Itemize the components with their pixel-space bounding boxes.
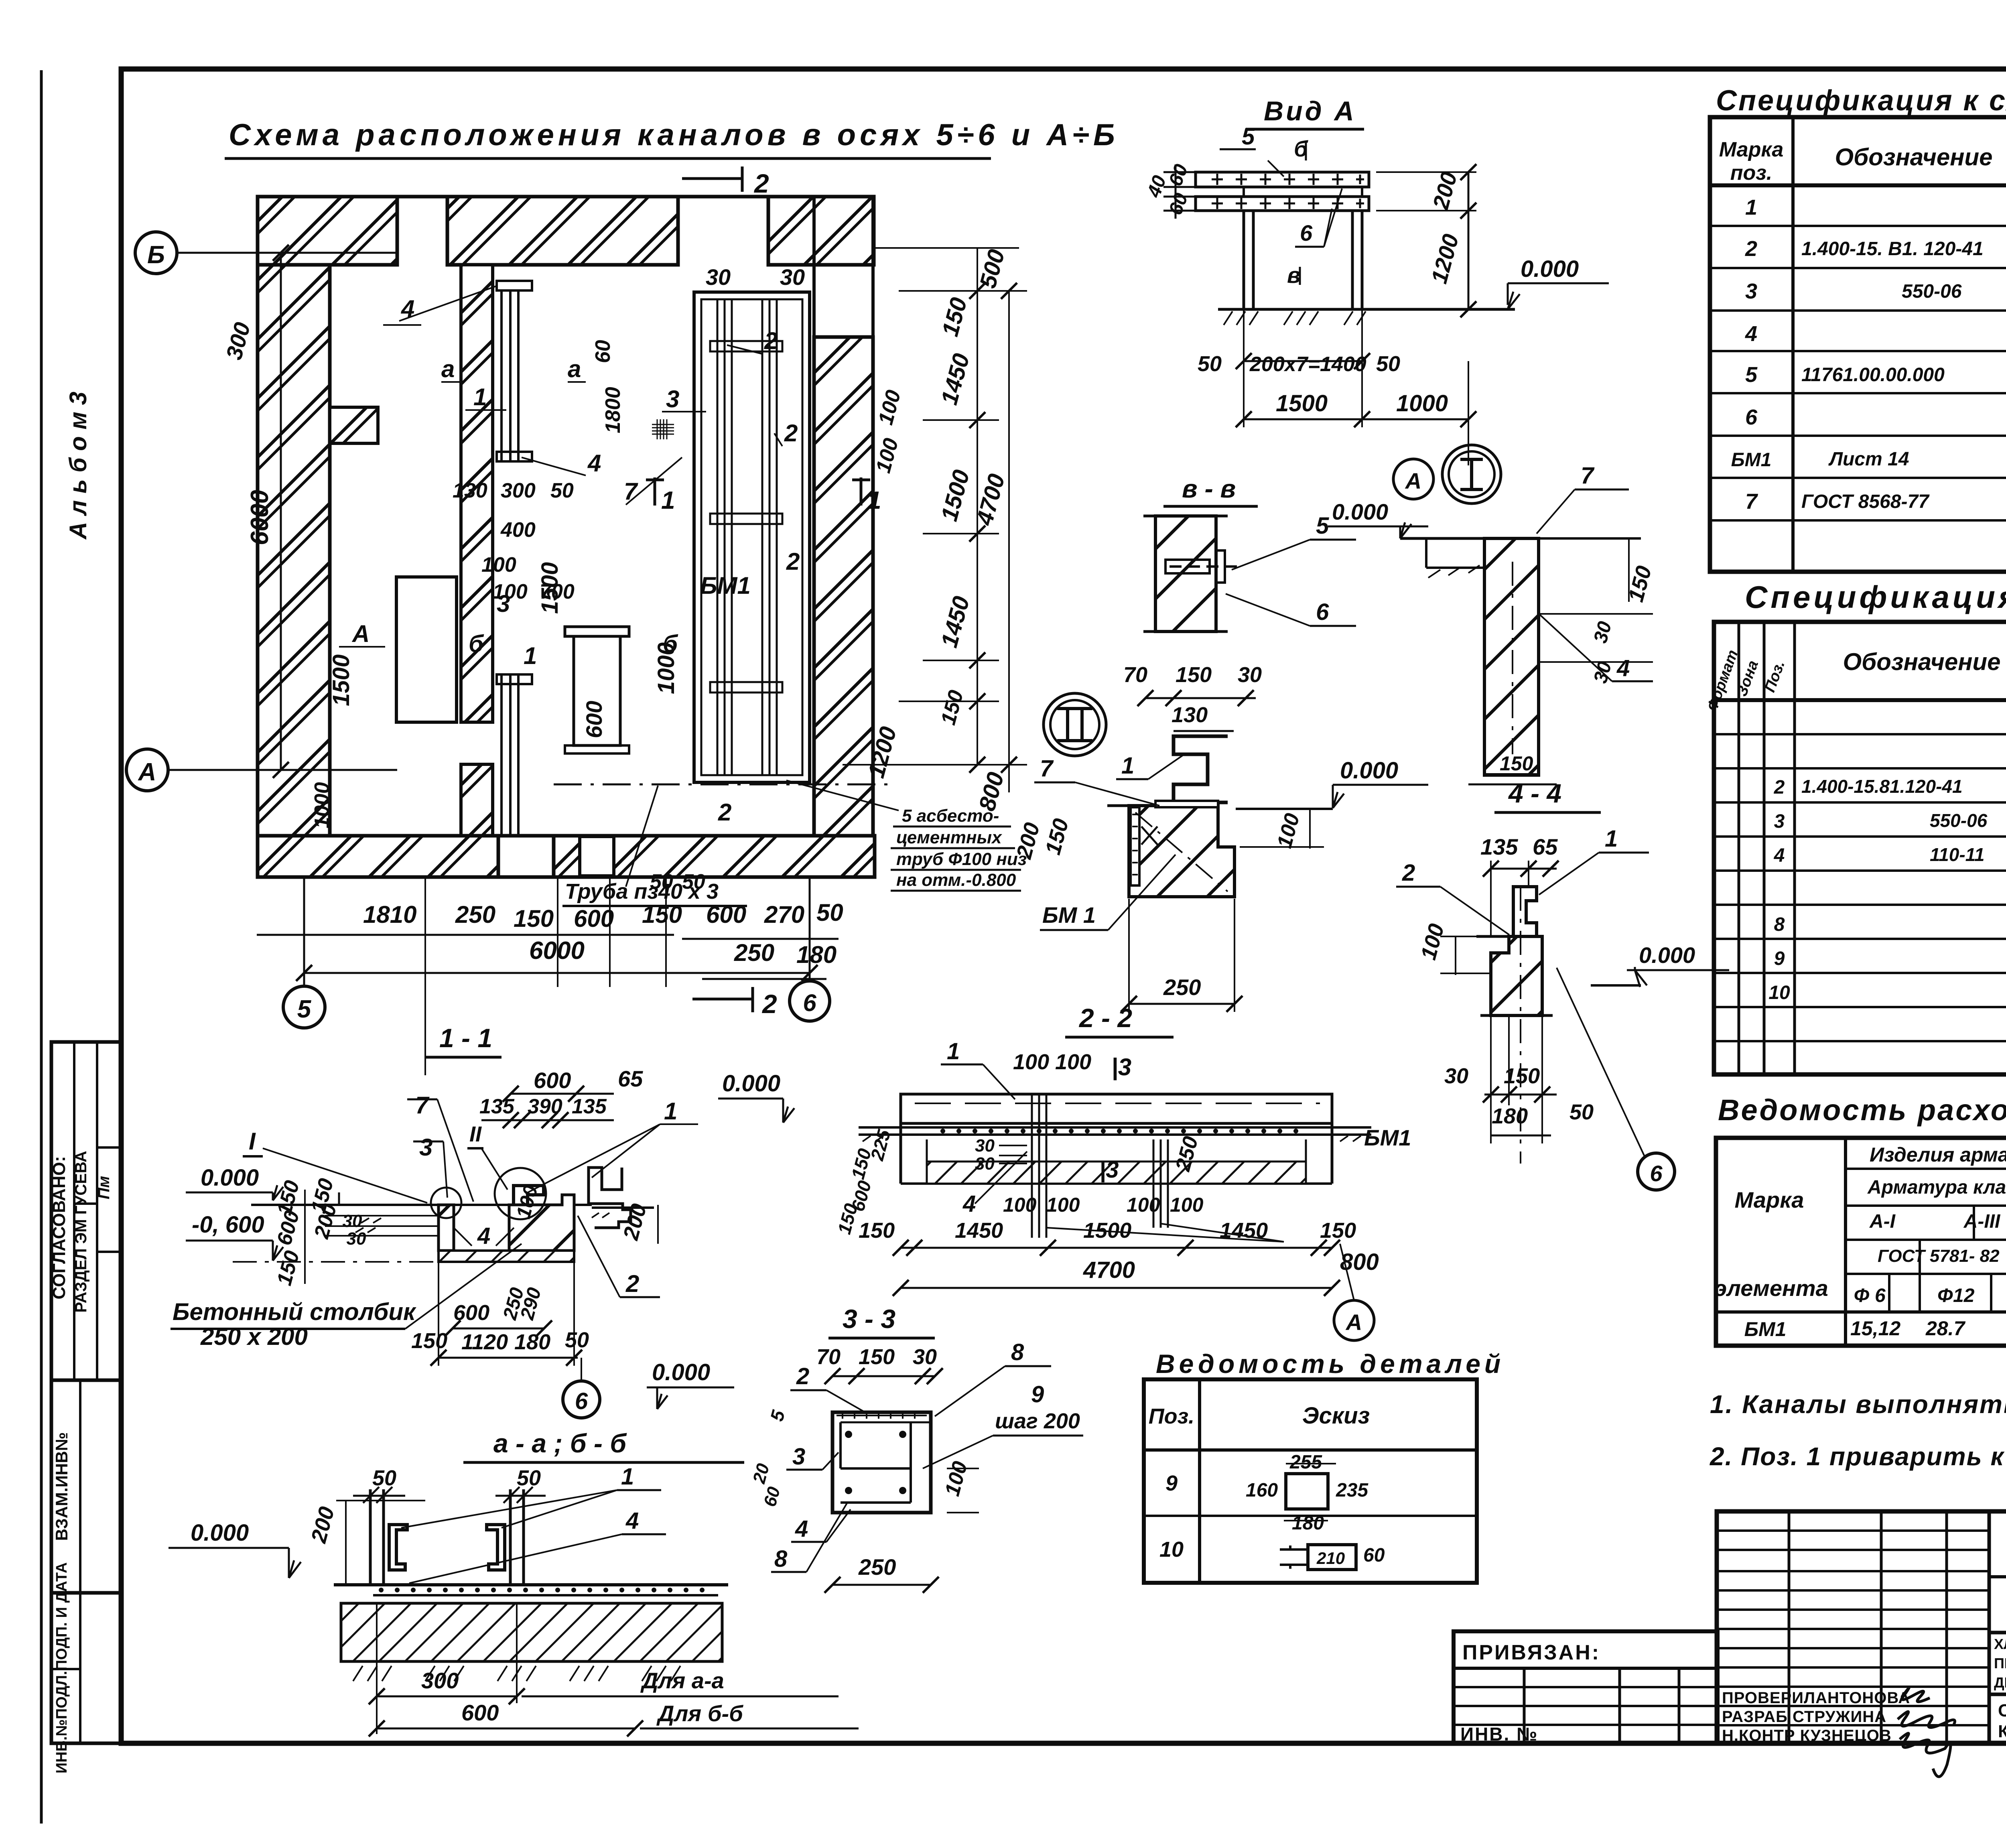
svg-text:110-11: 110-11 <box>1930 844 1984 865</box>
table 1 header texts <box>1719 136 2006 185</box>
4-4 axis 6 circle <box>1638 1153 1675 1190</box>
svg-text:ХЛОРАТОРНАЯ ДЛЯ ОБЕЗЗАРАЖИВАНИ: ХЛОРАТОРНАЯ ДЛЯ ОБЕЗЗАРАЖИВАНИЯ <box>1994 1636 2006 1652</box>
svg-text:8: 8 <box>1011 1339 1024 1365</box>
1-1 detail circles <box>431 1188 461 1218</box>
1-1 trench left pier <box>439 1205 454 1251</box>
svg-text:Н.КОНТР КУЗНЕЦОВ: Н.КОНТР КУЗНЕЦОВ <box>1722 1727 1892 1744</box>
svg-text:Ведомость расхода стали на эл: Ведомость расхода стали на элемент, кг <box>1718 1093 2006 1127</box>
svg-text:30: 30 <box>347 1229 366 1249</box>
small channel item 1 lower left <box>554 627 895 784</box>
svg-text:2: 2 <box>761 989 777 1019</box>
2-2 dim row 1 <box>901 1247 1332 1249</box>
svg-text:180: 180 <box>1292 1513 1324 1534</box>
1-1 left dims <box>272 1176 366 1288</box>
а-а left C-channel <box>389 1525 407 1570</box>
svg-text:3 - 3: 3 - 3 <box>843 1304 895 1334</box>
svg-text:4: 4 <box>795 1516 808 1542</box>
3-3 section body <box>832 1412 931 1513</box>
svg-text:250: 250 <box>1163 975 1201 1000</box>
axis 5 line and circle <box>303 879 305 986</box>
svg-text:8: 8 <box>774 1546 788 1572</box>
svg-text:235: 235 <box>1336 1480 1368 1501</box>
svg-text:6: 6 <box>1316 599 1329 625</box>
stamp box 1 СОГЛАСОВАНО <box>51 1042 121 1380</box>
table 2 спецификация балки <box>1714 622 2006 1074</box>
svg-text:150: 150 <box>1176 663 1212 687</box>
svg-text:3: 3 <box>792 1444 805 1470</box>
2-2 post clusters <box>1032 1094 1168 1238</box>
svg-text:100: 100 <box>1127 1194 1160 1216</box>
stamp box 3 ИНВ ПОДЛ <box>51 1593 121 1743</box>
svg-text:А: А <box>1405 468 1421 493</box>
svg-text:Спецификация к схеме расположе: Спецификация к схеме расположения канало… <box>1716 85 2006 117</box>
plan walls: right wall <box>814 337 873 837</box>
svg-text:поз.: поз. <box>1730 161 1773 185</box>
sheet outer left edge line <box>40 70 43 1824</box>
svg-text:4 - 4: 4 - 4 <box>1508 778 1561 808</box>
svg-text:7: 7 <box>1745 489 1758 514</box>
svg-text:600: 600 <box>574 905 614 932</box>
svg-text:10: 10 <box>1768 982 1790 1003</box>
svg-text:150: 150 <box>859 1218 895 1243</box>
svg-text:3: 3 <box>419 1134 432 1161</box>
svg-text:-0, 600: -0, 600 <box>192 1212 264 1238</box>
svg-text:1000: 1000 <box>311 782 334 829</box>
vertical dim 6000 left <box>280 253 282 770</box>
svg-text:2: 2 <box>796 1363 809 1389</box>
double circle I <box>1442 445 1501 504</box>
svg-text:6: 6 <box>1650 1161 1663 1186</box>
svg-text:4: 4 <box>1745 322 1757 346</box>
svg-text:1450: 1450 <box>1220 1218 1268 1243</box>
svg-text:600: 600 <box>534 1068 571 1093</box>
svg-text:БМ1: БМ1 <box>1364 1125 1411 1150</box>
svg-text:100: 100 <box>1046 1194 1080 1216</box>
svg-text:1: 1 <box>867 487 881 514</box>
svg-text:|3: |3 <box>1111 1054 1131 1080</box>
svg-text:50: 50 <box>1198 352 1222 376</box>
section mark 2 bottom <box>692 998 753 1001</box>
axis line Б <box>177 252 397 254</box>
svg-text:КАНАЛОВ В ОСЯХ 5÷6 И А÷Б.: КАНАЛОВ В ОСЯХ 5÷6 И А÷Б. <box>1998 1722 2006 1741</box>
axis circle А <box>126 749 168 791</box>
pit rectangle in left room <box>396 577 457 722</box>
svg-text:4: 4 <box>962 1191 976 1217</box>
svg-text:250: 250 <box>734 939 774 966</box>
svg-text:1: 1 <box>1121 753 1134 779</box>
1-1 channel profile on pier <box>514 1186 544 1204</box>
svg-text:100: 100 <box>1003 1194 1037 1216</box>
svg-text:1: 1 <box>473 384 487 410</box>
svg-text:1: 1 <box>664 1098 677 1125</box>
svg-text:1500: 1500 <box>1083 1218 1131 1243</box>
svg-text:70: 70 <box>1123 663 1147 687</box>
svg-text:Арматура класса: Арматура класса <box>1867 1177 2006 1198</box>
table 3 data row <box>1744 1316 2006 1340</box>
svg-text:30: 30 <box>913 1345 937 1369</box>
svg-text:б: б <box>469 630 484 657</box>
Вид А posts <box>1244 211 1362 309</box>
1-1 axis 6 circle <box>581 1358 582 1381</box>
svg-text:2 - 2: 2 - 2 <box>1078 1003 1132 1033</box>
svg-text:150: 150 <box>514 905 554 932</box>
axis line А <box>168 769 397 771</box>
table 1 спецификация каналов <box>1710 117 2006 572</box>
svg-text:6: 6 <box>1300 220 1313 246</box>
table 3 ведомость расхода стали <box>1716 1138 2006 1346</box>
svg-text:130: 130 <box>453 479 487 502</box>
svg-text:250: 250 <box>455 901 495 928</box>
svg-text:180: 180 <box>514 1330 550 1354</box>
svg-text:0.000: 0.000 <box>1521 256 1579 282</box>
svg-text:11761.00.00.000: 11761.00.00.000 <box>1801 364 1945 386</box>
svg-text:1: 1 <box>661 487 675 514</box>
svg-text:4: 4 <box>1616 655 1630 681</box>
svg-text:1500: 1500 <box>537 562 563 614</box>
svg-text:2: 2 <box>784 420 798 447</box>
1-1 right plinth profile <box>589 1168 631 1228</box>
svg-text:Ведомость деталей: Ведомость деталей <box>1156 1349 1504 1379</box>
svg-text:ПИТЬЕВЫХ И СТОЧНЫХ ВОД ПРОИЗВО: ПИТЬЕВЫХ И СТОЧНЫХ ВОД ПРОИЗВО- <box>1994 1655 2006 1671</box>
а-а bottom dims <box>377 1696 517 1698</box>
svg-text:1000: 1000 <box>1396 390 1448 416</box>
detail II base <box>1107 801 1234 897</box>
svg-text:300: 300 <box>501 479 536 502</box>
svg-text:Марка: Марка <box>1719 138 1784 161</box>
svg-text:50: 50 <box>372 1466 396 1490</box>
svg-text:150: 150 <box>411 1329 447 1353</box>
svg-text:А: А <box>351 620 370 647</box>
svg-text:600: 600 <box>581 701 607 738</box>
svg-text:ПРИВЯЗАН:: ПРИВЯЗАН: <box>1462 1641 1600 1664</box>
svg-text:А-I: А-I <box>1869 1211 1896 1232</box>
thin channel in left room <box>497 281 532 836</box>
svg-text:100: 100 <box>481 553 516 577</box>
svg-text:2: 2 <box>1745 237 1757 261</box>
svg-text:Б: Б <box>147 241 165 269</box>
4-4 column <box>1491 936 1542 1015</box>
small dims in plan <box>221 320 705 894</box>
1-1 trench right pier <box>509 1195 574 1251</box>
а-а slab <box>334 1585 728 1661</box>
svg-text:30: 30 <box>975 1136 995 1156</box>
svg-text:1800: 1800 <box>601 387 625 433</box>
svg-text:135: 135 <box>572 1095 607 1118</box>
svg-text:1 - 1: 1 - 1 <box>439 1023 492 1053</box>
svg-text:2: 2 <box>753 169 769 198</box>
svg-text:255: 255 <box>1289 1452 1322 1473</box>
embedded plates in channel <box>710 341 782 351</box>
2-2 circled А <box>1334 1300 1374 1340</box>
svg-text:БМ1: БМ1 <box>700 572 751 599</box>
plan walls: top band <box>258 197 875 877</box>
svg-text:0.000: 0.000 <box>1639 942 1695 968</box>
svg-text:30: 30 <box>780 264 805 290</box>
svg-text:1. Каналы выполнять из бетон: 1. Каналы выполнять из бетона В 12, 5. <box>1710 1390 2006 1419</box>
поз 10 sketch <box>1308 1545 1356 1570</box>
svg-text:2: 2 <box>625 1270 639 1297</box>
а-а ground hatch <box>353 1666 680 1681</box>
plan wall pier left <box>330 407 378 443</box>
svg-text:Эскиз: Эскиз <box>1302 1403 1370 1429</box>
svg-text:150: 150 <box>1500 752 1533 775</box>
1-1 screed lines <box>325 1215 439 1216</box>
svg-text:250 х 200: 250 х 200 <box>200 1323 308 1350</box>
svg-text:Для б-б: Для б-б <box>656 1701 743 1726</box>
svg-text:ГОСТ 5781- 82: ГОСТ 5781- 82 <box>1878 1246 2000 1266</box>
svg-text:Φ 6: Φ 6 <box>1854 1285 1886 1306</box>
svg-text:3: 3 <box>1774 811 1785 832</box>
svg-text:БМ1: БМ1 <box>1731 449 1772 471</box>
2-2 end ground hatch <box>863 1136 1361 1141</box>
svg-text:150: 150 <box>859 1345 895 1369</box>
svg-text:30: 30 <box>706 264 731 290</box>
title block object name <box>1994 1636 2006 1741</box>
svg-text:1000: 1000 <box>653 642 679 694</box>
svg-text:100: 100 <box>1170 1194 1204 1216</box>
svg-text:100: 100 <box>1013 1050 1049 1074</box>
svg-text:|3: |3 <box>1099 1157 1119 1183</box>
channel wall lines <box>717 299 719 775</box>
svg-text:10: 10 <box>1159 1537 1184 1562</box>
svg-text:5: 5 <box>297 995 312 1023</box>
svg-text:5: 5 <box>1745 363 1758 387</box>
svg-text:65: 65 <box>1533 834 1558 859</box>
section marks 1 <box>654 477 656 506</box>
svg-text:ИНВ. №: ИНВ. № <box>1460 1724 1538 1744</box>
svg-text:7: 7 <box>1040 755 1054 782</box>
svg-text:130: 130 <box>1172 703 1208 727</box>
svg-text:3: 3 <box>1745 279 1757 303</box>
svg-text:3: 3 <box>666 386 679 412</box>
поз 9 sketch <box>1286 1474 1328 1509</box>
svg-text:160: 160 <box>1246 1480 1278 1501</box>
svg-text:150: 150 <box>1320 1218 1356 1243</box>
svg-text:70: 70 <box>816 1345 841 1369</box>
svg-text:2. Поз. 1 приварить к поз.: 2. Поз. 1 приварить к поз. 2 и 4 . Катет… <box>1710 1442 2006 1471</box>
svg-text:30: 30 <box>975 1154 995 1174</box>
svg-text:А: А <box>1345 1310 1362 1335</box>
svg-text:Пм: Пм <box>95 1176 113 1199</box>
svg-text:ГОСТ 8568-77: ГОСТ 8568-77 <box>1801 491 1930 512</box>
svg-text:4700: 4700 <box>1083 1257 1135 1283</box>
svg-text:1500: 1500 <box>328 654 354 706</box>
svg-text:ПРОВЕРИЛАНТОНОВА: ПРОВЕРИЛАНТОНОВА <box>1722 1689 1910 1707</box>
bottom dim chain 1 <box>257 934 674 936</box>
svg-text:1: 1 <box>1745 195 1757 219</box>
svg-text:1120: 1120 <box>461 1330 508 1354</box>
привязан box <box>1454 1631 1718 1743</box>
svg-text:550-06: 550-06 <box>1930 810 1988 831</box>
axis circle Б <box>135 232 177 274</box>
svg-text:210: 210 <box>1316 1549 1345 1568</box>
3-3 250 dim <box>832 1584 931 1586</box>
svg-text:4: 4 <box>625 1508 639 1534</box>
svg-text:Бетонный столбик: Бетонный столбик <box>173 1298 416 1325</box>
1-1 floor line <box>251 1204 592 1206</box>
в-в bolt <box>1165 550 1240 583</box>
svg-text:270: 270 <box>764 901 804 928</box>
svg-text:30: 30 <box>1444 1064 1468 1088</box>
svg-text:РАЗДЕЛ ЭМ ГУСЕВА: РАЗДЕЛ ЭМ ГУСЕВА <box>72 1151 90 1312</box>
svg-text:600: 600 <box>461 1700 499 1725</box>
svg-text:Для а-а: Для а-а <box>640 1668 724 1693</box>
svg-text:Лист 14: Лист 14 <box>1828 449 1909 470</box>
svg-text:БМ1: БМ1 <box>1744 1318 1787 1340</box>
svg-text:6: 6 <box>575 1388 588 1414</box>
svg-text:шаг 200: шаг 200 <box>995 1409 1080 1433</box>
svg-text:30: 30 <box>343 1211 362 1231</box>
svg-text:2: 2 <box>718 799 731 826</box>
circled А near Вид А <box>1393 459 1433 499</box>
svg-text:0.000: 0.000 <box>191 1520 249 1546</box>
svg-text:2: 2 <box>1774 777 1785 798</box>
2-2 left rot dims <box>833 1127 894 1237</box>
detail II channel <box>1174 736 1228 802</box>
svg-text:7: 7 <box>415 1092 430 1119</box>
svg-text:на отм.-0.800: на отм.-0.800 <box>896 870 1016 890</box>
table 2 header texts <box>1704 648 2006 713</box>
svg-text:1500: 1500 <box>1276 390 1328 416</box>
svg-text:1: 1 <box>621 1464 634 1490</box>
svg-text:СОГЛАСОВАНО:: СОГЛАСОВАНО: <box>49 1156 69 1299</box>
channel БМ1 outer <box>694 292 810 782</box>
svg-text:60: 60 <box>591 340 615 363</box>
svg-text:50: 50 <box>1376 352 1400 376</box>
svg-text:100: 100 <box>493 580 528 603</box>
table 2 body texts <box>1768 707 2006 1003</box>
svg-text:135: 135 <box>479 1095 515 1118</box>
svg-text:4: 4 <box>477 1223 490 1249</box>
svg-text:А: А <box>138 758 156 786</box>
axis 6 line and circle <box>809 879 811 981</box>
svg-text:135: 135 <box>1480 834 1518 859</box>
svg-text:550-06: 550-06 <box>1902 281 1962 302</box>
svg-text:2: 2 <box>786 548 800 575</box>
svg-text:50: 50 <box>682 870 705 894</box>
section mark 2 top <box>682 177 742 180</box>
svg-text:6000: 6000 <box>246 490 274 545</box>
svg-text:1810: 1810 <box>363 901 416 928</box>
svg-text:2: 2 <box>764 327 778 354</box>
table 1 body texts <box>1731 187 2006 514</box>
svg-text:5: 5 <box>1316 513 1329 539</box>
svg-text:50: 50 <box>816 899 843 926</box>
detail I corner <box>1400 538 1653 784</box>
svg-text:65: 65 <box>618 1066 643 1091</box>
svg-text:Марка: Марка <box>1735 1187 1804 1212</box>
4-4 channel profile <box>1513 887 1537 935</box>
2-2 rifled sheet dots <box>940 1129 1298 1133</box>
svg-text:6: 6 <box>1745 405 1758 429</box>
svg-text:I: I <box>249 1128 256 1155</box>
4-4 bottom dims <box>1480 1014 1553 1017</box>
svg-text:Вид А: Вид А <box>1264 96 1356 126</box>
1-1 bottom slab <box>439 1251 574 1262</box>
svg-text:ДИТЕЛЬНОСТЬЮ 50КГ. ХЛОРА В ЧАС: ДИТЕЛЬНОСТЬЮ 50КГ. ХЛОРА В ЧАС. <box>1994 1674 2006 1691</box>
svg-text:1: 1 <box>1605 826 1618 852</box>
signatures scribbles <box>1898 1688 1955 1777</box>
table 3 header texts <box>1714 1141 2006 1308</box>
stamp box 2 ВЗАМ ИНВ <box>51 1380 121 1593</box>
svg-text:А-III: А-III <box>1963 1211 2001 1232</box>
Вид А left dims <box>1143 161 1192 218</box>
svg-text:а - а ; б - б: а - а ; б - б <box>493 1428 627 1458</box>
svg-text:1: 1 <box>947 1038 960 1064</box>
svg-text:400: 400 <box>500 518 536 542</box>
Вид А ground line <box>1218 308 1515 311</box>
svg-text:0.000: 0.000 <box>1332 499 1388 524</box>
svg-text:ИНВ.№ПОДЛ.ПОДП. И ДАТА: ИНВ.№ПОДЛ.ПОДП. И ДАТА <box>53 1562 70 1773</box>
svg-text:0.000: 0.000 <box>1340 757 1398 784</box>
svg-text:ВЗАМ.ИНВ№: ВЗАМ.ИНВ№ <box>52 1432 71 1541</box>
svg-text:28.7: 28.7 <box>1925 1317 1966 1340</box>
svg-text:50: 50 <box>565 1328 589 1352</box>
svg-text:труб Ф100 низ: труб Ф100 низ <box>896 849 1027 869</box>
svg-text:Φ12: Φ12 <box>1937 1285 1975 1306</box>
svg-text:9: 9 <box>1165 1471 1178 1495</box>
svg-text:300: 300 <box>421 1668 459 1693</box>
svg-text:Поз.: Поз. <box>1149 1404 1194 1428</box>
plan walls: left wall <box>258 265 330 837</box>
svg-text:СХЕМА РАСПОЛОЖЕНИЯ: СХЕМА РАСПОЛОЖЕНИЯ <box>1998 1701 2006 1720</box>
svg-text:Изделия арматурные: Изделия арматурные <box>1870 1143 2006 1166</box>
в-в wall pier <box>1155 516 1216 632</box>
svg-text:4: 4 <box>587 450 601 477</box>
svg-text:1.400-15.81.120-41: 1.400-15.81.120-41 <box>1801 776 1963 797</box>
svg-text:а: а <box>568 355 581 382</box>
dim 6000 bottom <box>304 972 810 974</box>
svg-text:800: 800 <box>1340 1249 1379 1275</box>
svg-text:0.000: 0.000 <box>201 1165 259 1191</box>
svg-text:А л ь б о м 3: А л ь б о м 3 <box>65 392 91 540</box>
svg-text:1450: 1450 <box>955 1218 1003 1243</box>
svg-text:а: а <box>441 355 455 382</box>
plan leader labels <box>351 295 800 826</box>
svg-text:30: 30 <box>1238 663 1262 687</box>
svg-text:в: в <box>1287 262 1301 288</box>
signature rows <box>1722 1689 1910 1744</box>
svg-text:цементных: цементных <box>896 828 1002 847</box>
svg-text:БМ 1: БМ 1 <box>1042 902 1096 928</box>
plan walls: middle wall <box>461 265 493 722</box>
svg-text:2: 2 <box>1402 860 1415 886</box>
асбесто box <box>786 780 1027 891</box>
2-2 dim row 2 <box>901 1287 1332 1289</box>
svg-text:50: 50 <box>517 1466 541 1490</box>
double circle II <box>1044 693 1106 756</box>
svg-text:180: 180 <box>796 941 837 968</box>
Вид А bottom dims <box>1244 360 1362 362</box>
ведомость деталей table <box>1144 1379 1477 1583</box>
svg-text:100: 100 <box>1055 1050 1091 1074</box>
svg-text:50: 50 <box>550 479 574 502</box>
svg-text:0.000: 0.000 <box>652 1359 710 1385</box>
2-2 beam body <box>859 1094 1371 1184</box>
svg-text:180: 180 <box>1492 1104 1528 1128</box>
svg-text:РАЗРАБ СТРУЖИНА: РАЗРАБ СТРУЖИНА <box>1722 1708 1886 1726</box>
svg-text:Спецификация монолитной балки: Спецификация монолитной балки. <box>1745 579 2006 615</box>
Вид А right dims 200 1200 <box>1468 172 1470 309</box>
svg-text:Схема расположения каналов в о: Схема расположения каналов в осях 5÷6 и … <box>229 118 1119 152</box>
svg-text:200х7=1400: 200х7=1400 <box>1249 353 1366 376</box>
title block <box>1717 1511 2006 1743</box>
svg-text:5: 5 <box>1242 124 1255 150</box>
Вид А beam bands <box>1196 172 1369 211</box>
right dim chains <box>843 248 1027 792</box>
svg-text:II: II <box>469 1122 482 1146</box>
3-3 top checker <box>837 1412 927 1419</box>
